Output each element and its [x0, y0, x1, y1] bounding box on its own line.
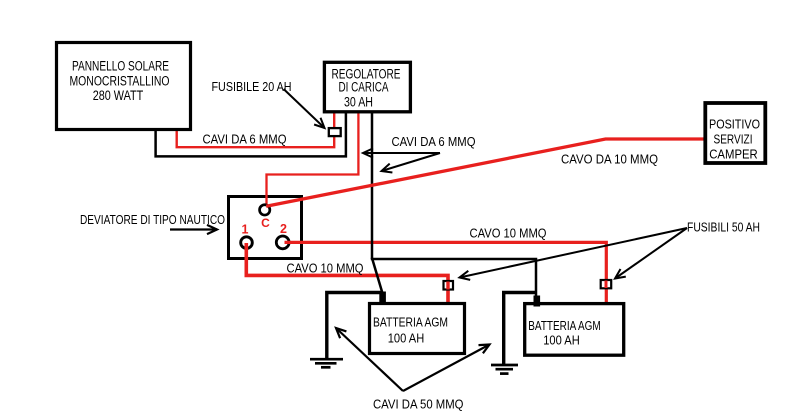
battery 2 box — [525, 304, 624, 356]
arrow fusibile 20 ah — [284, 89, 325, 128]
arrow cavi da 6 mmq diagonal — [382, 153, 441, 173]
wire cavo 10 mmq (red) pole 2 to fuse 2 / battery 2 positive — [285, 242, 607, 302]
svg-text:CAVI DA 6 MMQ: CAVI DA 6 MMQ — [203, 132, 287, 147]
arrow fusibili to fuse 2 — [615, 228, 687, 279]
svg-text:DEVIATORE DI TIPO NAUTICO: DEVIATORE DI TIPO NAUTICO — [80, 212, 225, 227]
ground 2 — [491, 365, 518, 374]
positivo servizi camper box — [705, 103, 765, 163]
wire cavo da 10 mmq (red) pole C to positivo servizi — [266, 139, 704, 206]
solar panel box — [57, 43, 191, 130]
wire panel positive (red) to fuse / regolatore — [177, 112, 335, 147]
battery 1 box — [370, 304, 465, 354]
battery 1 negative terminal — [379, 292, 386, 305]
wire ground 1 (black) — [327, 293, 382, 359]
positivo servizi camper label — [709, 116, 760, 161]
svg-text:CAVO 10 MMQ: CAVO 10 MMQ — [287, 260, 364, 275]
wire cavo 10 mmq (red) pole 1 to fuse 1 / battery 1 positive — [246, 243, 448, 302]
svg-text:BATTERIA AGM: BATTERIA AGM — [528, 318, 601, 333]
svg-text:CAVI DA 50 MMQ: CAVI DA 50 MMQ — [373, 397, 464, 412]
svg-text:POSITIVO: POSITIVO — [709, 116, 760, 131]
arrow deviatore — [170, 225, 217, 234]
solar panel label — [70, 59, 170, 104]
battery 2 label — [528, 318, 601, 348]
svg-text:280 WATT: 280 WATT — [93, 88, 144, 103]
wire ground 2 (black) — [504, 293, 536, 365]
svg-text:100 AH: 100 AH — [543, 332, 580, 347]
pole 1 terminal — [241, 237, 253, 249]
wire regolatore negative (black) long vertical — [371, 112, 374, 259]
svg-text:CAVO 10 MMQ: CAVO 10 MMQ — [470, 226, 547, 241]
svg-text:FUSIBILE 20 AH: FUSIBILE 20 AH — [212, 79, 292, 94]
battery 1 label — [373, 315, 448, 346]
fuse 20 AH (on panel positive) — [329, 128, 341, 136]
pole C terminal — [260, 205, 270, 215]
regolatore label — [332, 67, 401, 110]
svg-text:CAVO DA 10 MMQ: CAVO DA 10 MMQ — [561, 151, 658, 166]
fuse 50 AH battery 2 — [601, 280, 612, 288]
arrow cavi 50 to ground 1 — [336, 328, 403, 391]
svg-text:30 AH: 30 AH — [344, 94, 373, 109]
wire regolatore output (thin red) to deviatore pole C — [267, 112, 359, 208]
arrow fusibili to fuse 1 — [460, 228, 688, 280]
arrow cavi da 6 mmq horizontal — [363, 148, 440, 157]
regolatore di carica box — [324, 62, 410, 112]
svg-text:SERVIZI: SERVIZI — [714, 132, 753, 147]
svg-text:FUSIBILI 50 AH: FUSIBILI 50 AH — [687, 220, 760, 235]
deviatore (battery switch) box — [229, 197, 302, 259]
wire negative branch to battery 2 — [371, 259, 536, 298]
battery 2 negative terminal — [534, 296, 541, 307]
svg-text:1: 1 — [242, 223, 249, 237]
fuse 50 AH battery 1 — [444, 281, 454, 290]
svg-text:MONOCRISTALLINO: MONOCRISTALLINO — [70, 74, 170, 89]
svg-text:PANNELLO SOLARE: PANNELLO SOLARE — [72, 59, 169, 74]
svg-text:2: 2 — [280, 222, 287, 236]
svg-text:100 AH: 100 AH — [388, 330, 425, 345]
wire panel negative (black) to regolatore — [156, 112, 346, 156]
svg-text:DI CARICA: DI CARICA — [339, 79, 389, 94]
svg-text:BATTERIA AGM: BATTERIA AGM — [373, 315, 448, 330]
wire negative branch to battery 1 — [372, 258, 383, 295]
svg-text:C: C — [261, 216, 270, 230]
arrow cavi 50 to ground 2 — [403, 345, 490, 392]
svg-text:CAMPER: CAMPER — [709, 147, 758, 162]
ground 1 — [310, 359, 343, 367]
pole 2 terminal — [276, 236, 289, 249]
svg-text:CAVI DA 6 MMQ: CAVI DA 6 MMQ — [392, 134, 476, 149]
